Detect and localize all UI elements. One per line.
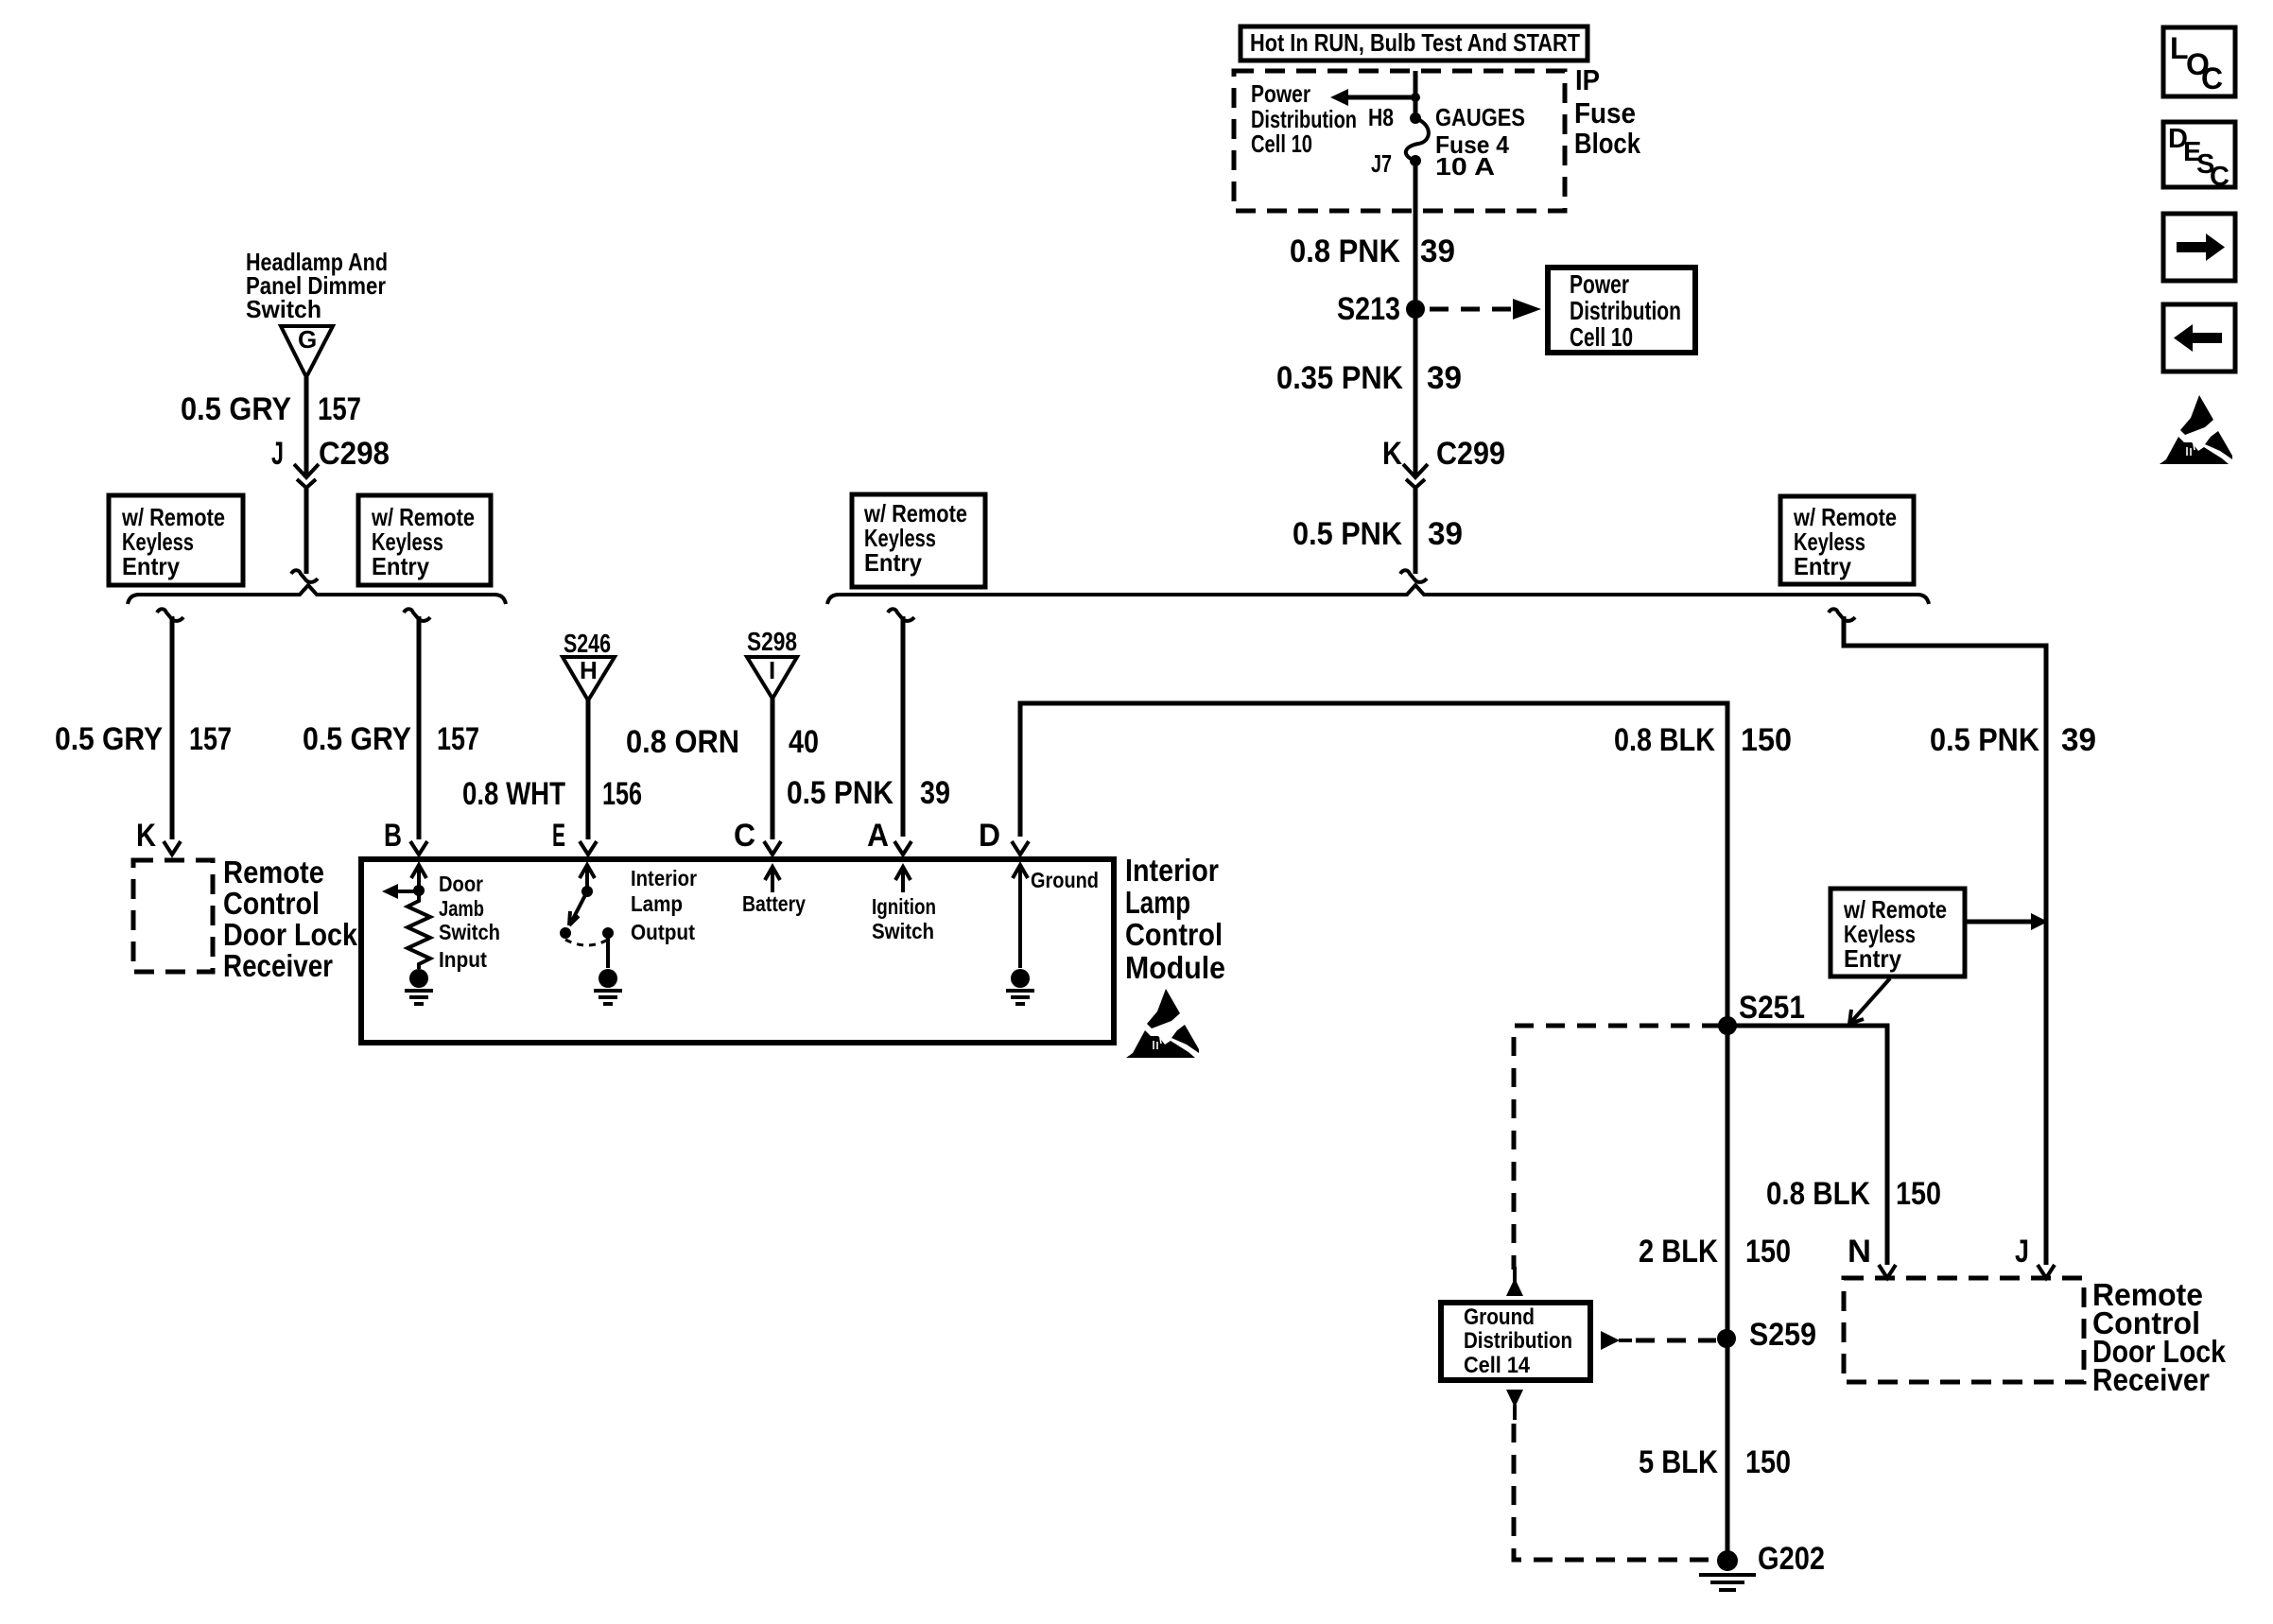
- ground symbol at D: [1006, 969, 1034, 1004]
- svg-text:157: 157: [318, 391, 361, 427]
- svg-text:Entry: Entry: [372, 552, 429, 580]
- svg-text:S251: S251: [1739, 990, 1805, 1026]
- svg-text:0.5 PNK: 0.5 PNK: [1293, 516, 1402, 552]
- svg-text:A: A: [867, 818, 889, 854]
- hook wire A branch: [888, 609, 914, 621]
- svg-text:C: C: [2201, 61, 2223, 95]
- title box Hot In RUN: [1241, 26, 1588, 60]
- svg-text:0.5 GRY: 0.5 GRY: [55, 721, 163, 757]
- arrow to power distribution: [1330, 89, 1420, 106]
- svg-text:K: K: [136, 818, 156, 854]
- Door Jamb Switch Input label: [439, 872, 500, 972]
- pin A connector: [894, 841, 911, 855]
- fuse 4 element: [1406, 112, 1429, 166]
- pin J connector: [2038, 1265, 2055, 1278]
- svg-text:39: 39: [920, 775, 950, 811]
- svg-text:157: 157: [189, 721, 232, 757]
- IP Fuse Block label: [1574, 63, 1641, 160]
- hook wire J branch: [1829, 609, 1855, 621]
- wire break tilde: [1400, 570, 1427, 582]
- svg-text:10 A: 10 A: [1435, 152, 1495, 181]
- dashed arrow ground distribution to S259: [1601, 1331, 1716, 1350]
- svg-text:Power: Power: [1570, 269, 1629, 299]
- arrowhead down from ground distribution: [1506, 1390, 1523, 1420]
- connector C299 pin K: [1382, 436, 1505, 488]
- svg-text:150: 150: [1745, 1444, 1791, 1480]
- wire J branch to right and down: [1844, 616, 2046, 1265]
- svg-text:0.5 GRY: 0.5 GRY: [181, 391, 291, 427]
- wire label 0.5 GRY 157 (K): [55, 721, 232, 757]
- wire A branch: [901, 616, 906, 837]
- pin K connector: [164, 841, 181, 855]
- hook wire B branch: [404, 609, 430, 621]
- battery input arrow: [765, 867, 780, 892]
- Interior Lamp Output label: [631, 866, 697, 944]
- svg-text:H: H: [580, 656, 598, 684]
- svg-text:Cell 10: Cell 10: [1570, 322, 1633, 352]
- wire label 0.8 ORN 40: [626, 724, 819, 760]
- pin C connector: [764, 841, 781, 855]
- svg-text:Hot In RUN, Bulb Test And STAR: Hot In RUN, Bulb Test And START: [1250, 28, 1580, 57]
- svg-text:Entry: Entry: [122, 552, 180, 580]
- svg-text:39: 39: [2061, 722, 2096, 758]
- pin N connector: [1879, 1265, 1896, 1278]
- wire label 0.8 BLK 150 (N): [1766, 1176, 1941, 1212]
- wire below C298: [304, 488, 309, 574]
- splice S246 triangle H: [563, 629, 615, 700]
- splice S251: [1718, 990, 1805, 1035]
- wire label 0.8 BLK 150 (D): [1614, 722, 1792, 758]
- svg-text:Battery: Battery: [742, 891, 806, 916]
- svg-text:Output: Output: [631, 920, 695, 944]
- Interior Lamp Control Module box: [361, 859, 1114, 1043]
- door jamb switch input circuit: [382, 865, 430, 969]
- wire break tilde: [291, 570, 318, 582]
- svg-text:0.8 BLK: 0.8 BLK: [1766, 1176, 1870, 1212]
- svg-text:B: B: [384, 818, 402, 854]
- Ignition Switch label: [872, 894, 936, 943]
- svg-text:Switch: Switch: [246, 295, 321, 323]
- splice S259: [1717, 1317, 1816, 1353]
- svg-text:150: 150: [1745, 1234, 1791, 1270]
- svg-text:Fuse: Fuse: [1574, 96, 1636, 130]
- svg-text:Distribution: Distribution: [1570, 296, 1681, 325]
- svg-text:G202: G202: [1758, 1541, 1825, 1577]
- w/ Remote Keyless Entry box 2: [358, 495, 491, 585]
- wire S251 down to G202: [1726, 1026, 1730, 1560]
- svg-text:Receiver: Receiver: [223, 948, 333, 983]
- dashed wire ground distribution to G202: [1514, 1424, 1721, 1560]
- wire label 0.8 WHT 156: [462, 776, 642, 812]
- Interior Lamp Control Module label: [1125, 853, 1225, 985]
- svg-text:S246: S246: [564, 629, 611, 658]
- pin B connector: [410, 841, 427, 855]
- arrow from box 4 to wire J: [1967, 913, 2048, 930]
- svg-text:0.35 PNK: 0.35 PNK: [1276, 360, 1403, 396]
- svg-text:Input: Input: [439, 947, 487, 972]
- svg-text:Remote: Remote: [223, 855, 324, 890]
- svg-text:Control: Control: [1125, 917, 1223, 952]
- Power Distribution Cell 10 label (fuse block): [1251, 79, 1357, 158]
- remote control door lock receiver dashed box (left): [133, 860, 213, 972]
- hook wire K branch: [157, 609, 183, 621]
- wire D branch horizontal and down to S251: [1020, 703, 1727, 1026]
- svg-text:Switch: Switch: [439, 920, 500, 944]
- svg-text:Interior: Interior: [1125, 853, 1219, 888]
- dashed arrow to Power Distribution Cell 10: [1430, 299, 1541, 320]
- svg-text:C298: C298: [319, 436, 390, 472]
- svg-text:S259: S259: [1749, 1317, 1816, 1353]
- wire fuse feed vertical: [1414, 71, 1418, 475]
- svg-text:GAUGES: GAUGES: [1435, 103, 1525, 131]
- Headlamp And Panel Dimmer Switch label: [246, 248, 388, 323]
- ground circuit at D: [1013, 865, 1028, 968]
- svg-text:150: 150: [1741, 722, 1792, 758]
- svg-text:Entry: Entry: [1794, 552, 1851, 580]
- svg-text:Jamb: Jamb: [439, 896, 484, 921]
- Remote Control Door Lock Receiver label (right): [2092, 1277, 2227, 1397]
- svg-text:0.8 WHT: 0.8 WHT: [462, 776, 565, 812]
- dashed wire S251 to ground distribution: [1514, 1026, 1721, 1270]
- ESD symbol right column: [2160, 395, 2232, 464]
- wire S251 to N branch: [1727, 1026, 1887, 1265]
- svg-text:IP: IP: [1575, 63, 1600, 96]
- ground at door jamb: [405, 969, 433, 1004]
- triangle G headlamp switch: [281, 325, 333, 377]
- left brace: [128, 585, 506, 604]
- splice S298 triangle I: [747, 627, 797, 699]
- svg-text:Ground: Ground: [1031, 868, 1099, 892]
- splice S213: [1337, 291, 1425, 327]
- DESC icon box: [2163, 122, 2235, 192]
- pin D connector: [1012, 841, 1029, 855]
- right brace: [827, 585, 1929, 604]
- svg-text:Switch: Switch: [872, 919, 934, 943]
- svg-text:S213: S213: [1337, 291, 1400, 327]
- wire label 0.5 GRY 157: [181, 391, 361, 427]
- Remote Control Door Lock Receiver label (left): [223, 855, 358, 983]
- wire label 0.5 PNK 39: [1293, 516, 1463, 552]
- svg-text:150: 150: [1896, 1176, 1941, 1212]
- svg-text:J: J: [2015, 1234, 2029, 1270]
- svg-text:2 BLK: 2 BLK: [1639, 1234, 1718, 1270]
- svg-text:C299: C299: [1436, 436, 1505, 472]
- diagonal arrow from box 4 to S251: [1849, 978, 1890, 1024]
- Power Distribution Cell 10 box: [1548, 268, 1695, 353]
- svg-text:0.5 PNK: 0.5 PNK: [1930, 722, 2039, 758]
- svg-text:Block: Block: [1574, 127, 1641, 160]
- wire K branch: [170, 616, 175, 839]
- svg-text:S298: S298: [747, 627, 797, 656]
- svg-text:Door Lock: Door Lock: [223, 917, 358, 952]
- svg-text:Power: Power: [1251, 79, 1310, 108]
- wire label 0.5 PNK 39 (A): [787, 775, 950, 811]
- svg-text:39: 39: [1420, 233, 1455, 269]
- svg-text:Receiver: Receiver: [2092, 1362, 2210, 1397]
- svg-text:D: D: [979, 818, 1000, 854]
- w/ Remote Keyless Entry box (A branch): [852, 494, 985, 587]
- remote control door lock receiver dashed box (right): [1844, 1278, 2084, 1382]
- w/ Remote Keyless Entry box 1: [109, 495, 243, 585]
- GAUGES Fuse 4 10 A label: [1435, 103, 1525, 181]
- svg-text:Entry: Entry: [864, 548, 922, 577]
- svg-text:Cell 14: Cell 14: [1464, 1353, 1531, 1378]
- svg-text:C: C: [734, 818, 755, 854]
- ESD symbol module: [1126, 989, 1199, 1058]
- svg-text:40: 40: [789, 724, 819, 760]
- svg-text:N: N: [1848, 1234, 1871, 1270]
- svg-text:K: K: [1382, 436, 1402, 472]
- IP fuse block dashed box: [1234, 71, 1565, 211]
- svg-text:Interior: Interior: [631, 866, 697, 890]
- svg-text:0.8 BLK: 0.8 BLK: [1614, 722, 1715, 758]
- wire label 0.35 PNK 39: [1276, 360, 1462, 396]
- left arrow icon box: [2163, 304, 2235, 371]
- ground G202: [1699, 1541, 1825, 1590]
- svg-text:Ground: Ground: [1464, 1304, 1535, 1330]
- svg-text:G: G: [298, 325, 317, 354]
- svg-text:0.8 PNK: 0.8 PNK: [1290, 233, 1400, 269]
- ground at interior lamp output: [594, 969, 622, 1004]
- svg-text:39: 39: [1427, 360, 1462, 396]
- svg-text:Entry: Entry: [1844, 944, 1901, 973]
- svg-text:0.5 GRY: 0.5 GRY: [303, 721, 411, 757]
- wire label 0.5 PNK 39 (J): [1930, 722, 2096, 758]
- svg-text:H8: H8: [1368, 103, 1394, 131]
- svg-text:C: C: [2210, 162, 2230, 192]
- svg-text:Module: Module: [1125, 950, 1225, 985]
- wire label 5 BLK 150: [1639, 1444, 1791, 1480]
- svg-text:157: 157: [437, 721, 479, 757]
- LOC icon box: [2163, 27, 2235, 96]
- w/ Remote Keyless Entry box 4: [1831, 889, 1965, 976]
- w/ Remote Keyless Entry box 3: [1780, 496, 1914, 584]
- wire label 0.5 GRY 157 (B): [303, 721, 479, 757]
- right arrow icon box: [2163, 214, 2235, 281]
- ignition switch arrow: [895, 867, 911, 892]
- connector C298 pin J: [271, 436, 390, 488]
- svg-text:Distribution: Distribution: [1464, 1328, 1572, 1354]
- svg-text:39: 39: [1428, 516, 1463, 552]
- wire label 0.8 PNK 39: [1290, 233, 1455, 269]
- svg-text:E: E: [552, 818, 565, 854]
- svg-text:Lamp: Lamp: [631, 891, 683, 916]
- svg-text:156: 156: [602, 776, 642, 812]
- wire from G: [304, 377, 309, 477]
- svg-text:I: I: [769, 656, 775, 684]
- wire B branch: [417, 616, 422, 839]
- Ground Distribution Cell 14 box: [1441, 1303, 1590, 1380]
- svg-text:Door: Door: [439, 872, 483, 896]
- svg-text:Ignition: Ignition: [872, 894, 936, 919]
- svg-text:5 BLK: 5 BLK: [1639, 1444, 1718, 1480]
- svg-text:0.8 ORN: 0.8 ORN: [626, 724, 739, 760]
- wire label 2 BLK 150: [1639, 1234, 1791, 1270]
- svg-text:Cell 10: Cell 10: [1251, 130, 1312, 158]
- interior lamp output switch: [560, 865, 614, 968]
- svg-text:Lamp: Lamp: [1125, 885, 1190, 920]
- svg-text:Control: Control: [223, 886, 320, 921]
- pin E connector: [580, 841, 597, 855]
- svg-text:0.5 PNK: 0.5 PNK: [787, 775, 894, 811]
- wire below C299: [1414, 488, 1418, 574]
- arrowhead up to ground distribution: [1506, 1267, 1523, 1296]
- wire from I: [771, 699, 775, 839]
- svg-text:J7: J7: [1371, 149, 1392, 178]
- wire from H: [586, 700, 591, 839]
- svg-text:J: J: [271, 436, 284, 472]
